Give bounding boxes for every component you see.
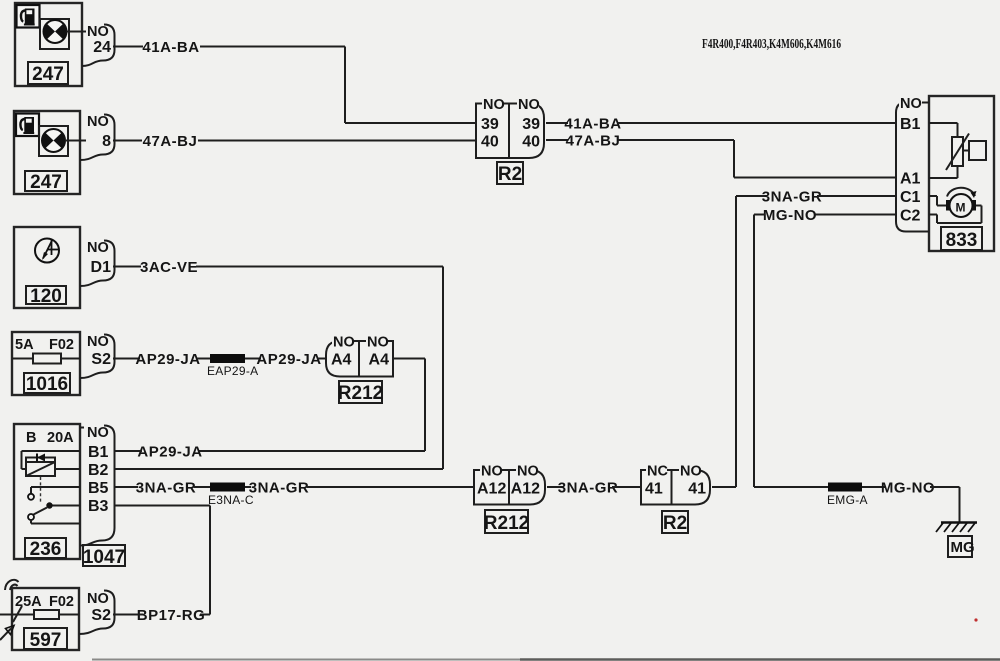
connector shell of 833 pins NO B1 A1 C1 C2 bbox=[896, 96, 929, 232]
svg-text:25A: 25A bbox=[15, 594, 42, 610]
svg-text:3AC-VE: 3AC-VE bbox=[140, 259, 198, 276]
relay contact pivot and blade bbox=[28, 502, 80, 523]
svg-text:247: 247 bbox=[30, 172, 62, 193]
indicator lamp symbol 247 second bbox=[39, 126, 86, 156]
fuel pump icon 247 top bbox=[17, 5, 40, 28]
svg-text:B: B bbox=[26, 430, 36, 446]
svg-text:F4R400,F4R403,K4M606,K4M616: F4R400,F4R403,K4M606,K4M616 bbox=[702, 37, 841, 52]
svg-text:NO: NO bbox=[517, 464, 539, 480]
svg-text:F02: F02 bbox=[49, 337, 74, 353]
svg-text:E3NA-C: E3NA-C bbox=[208, 493, 254, 507]
svg-text:A1: A1 bbox=[900, 171, 921, 188]
svg-text:NO: NO bbox=[481, 464, 503, 480]
svg-text:20A: 20A bbox=[47, 430, 74, 446]
wire MG-NO from 833 pin C2 to splice EMG-A bbox=[754, 207, 897, 487]
svg-text:NO: NO bbox=[900, 96, 922, 112]
connector shell pin NO / pin 24 of 247 top bbox=[82, 24, 115, 66]
wire 3NA-GR from R212 pin A12 to R2 pin 41 bbox=[547, 480, 641, 497]
connector R2 (top) pins 39 40 bbox=[476, 96, 544, 158]
svg-text:B2: B2 bbox=[88, 462, 109, 479]
label box 247 (top) bbox=[28, 62, 68, 85]
wire MG-NO from splice EMG-A to ground MG bbox=[862, 480, 960, 523]
wire 41A-BA from 247 pin 24 to R2 pin 39 bbox=[113, 39, 475, 123]
svg-text:C1: C1 bbox=[900, 189, 921, 206]
label box R212 (A12) bbox=[484, 510, 529, 534]
svg-text:EMG-A: EMG-A bbox=[827, 493, 868, 507]
wire 3NA-GR from 1047 pin B5 to splice E3NA-C bbox=[114, 480, 210, 497]
svg-text:R2: R2 bbox=[663, 513, 687, 534]
svg-text:597: 597 bbox=[30, 630, 62, 651]
svg-text:D1: D1 bbox=[91, 259, 112, 276]
svg-text:A4: A4 bbox=[369, 352, 390, 369]
svg-text:47A-BJ: 47A-BJ bbox=[143, 133, 198, 150]
svg-text:1047: 1047 bbox=[83, 547, 125, 568]
wire AP29-JA from splice EAP29-A to R212 pin A4 bbox=[245, 351, 327, 368]
splice EAP29-A bbox=[207, 354, 258, 378]
engine type note F4R400,F4R403,K4M606,K4M616 bbox=[702, 37, 841, 52]
connector shell pin NO / pin D1 of 120 bbox=[80, 240, 115, 286]
svg-text:247: 247 bbox=[32, 64, 64, 85]
svg-text:AP29-JA: AP29-JA bbox=[137, 444, 202, 461]
connector shell pin NO / pin S2 of 597 bbox=[79, 591, 115, 635]
svg-text:B3: B3 bbox=[88, 498, 109, 515]
svg-text:3NA-GR: 3NA-GR bbox=[136, 480, 197, 497]
svg-text:NO: NO bbox=[518, 97, 540, 113]
svg-text:NO: NO bbox=[87, 425, 109, 441]
svg-text:B1: B1 bbox=[88, 444, 109, 461]
svg-text:47A-BJ: 47A-BJ bbox=[566, 133, 621, 150]
svg-text:NO: NO bbox=[483, 97, 505, 113]
label box 120 bbox=[26, 286, 66, 307]
svg-text:EAP29-A: EAP29-A bbox=[207, 364, 258, 378]
svg-text:NO: NO bbox=[87, 24, 109, 40]
component 247 fuel pump relay feed (second) bbox=[14, 111, 80, 194]
svg-text:39: 39 bbox=[522, 116, 540, 133]
label box 1047 bbox=[83, 545, 125, 568]
svg-text:39: 39 bbox=[481, 116, 499, 133]
svg-text:NO: NO bbox=[87, 591, 109, 607]
svg-text:BP17-RG: BP17-RG bbox=[137, 607, 206, 624]
wire 3NA-GR from R2 pin 41 to 833 pin C1 bbox=[712, 189, 897, 488]
svg-text:5A: 5A bbox=[15, 337, 34, 353]
svg-text:AP29-JA: AP29-JA bbox=[135, 351, 200, 368]
svg-text:40: 40 bbox=[481, 134, 499, 151]
wire 41A-BA from R2 pin 39 to 833 pin B1 bbox=[546, 116, 897, 133]
svg-text:C2: C2 bbox=[900, 208, 921, 225]
svg-text:M: M bbox=[956, 201, 966, 215]
wire BP17-RG from 1047 pin B3 to 597 pin S2 bbox=[113, 506, 210, 625]
relay contact B5 terminal bbox=[28, 487, 80, 500]
indicator lamp symbol 247 top bbox=[40, 19, 86, 49]
component 597 fuse 25A F02 bbox=[12, 588, 79, 650]
svg-text:R2: R2 bbox=[498, 164, 522, 185]
svg-text:F02: F02 bbox=[49, 594, 74, 610]
label box 236 bbox=[25, 538, 66, 560]
freewheel diode of relay 236 bbox=[26, 454, 55, 463]
svg-text:40: 40 bbox=[522, 134, 540, 151]
svg-text:A4: A4 bbox=[331, 352, 352, 369]
label box 597 bbox=[24, 628, 67, 651]
svg-text:24: 24 bbox=[93, 39, 111, 56]
svg-text:B1: B1 bbox=[900, 116, 921, 133]
connector shell pin NO / pin S2 of 1016 bbox=[80, 334, 115, 378]
wire 47A-BJ from R2 pin 40 to 833 pin A1 bbox=[546, 133, 897, 178]
svg-text:41A-BA: 41A-BA bbox=[564, 116, 621, 133]
svg-text:S2: S2 bbox=[91, 351, 111, 368]
svg-text:MG-NO: MG-NO bbox=[763, 207, 817, 224]
component 1016 fuse 5A F02 bbox=[12, 332, 80, 395]
svg-text:41: 41 bbox=[688, 481, 706, 498]
component 247 fuel pump warning lamp (top) bbox=[15, 3, 82, 86]
fuse symbol F02 (597) bbox=[0, 610, 79, 619]
connector R212 pins A4 A4 bbox=[326, 334, 393, 377]
gauge symbol 120 bbox=[35, 239, 59, 263]
svg-text:NO: NO bbox=[367, 335, 389, 351]
wire 3AC-VE from 120 pin D1 to 1047 pin B2 bbox=[113, 259, 443, 469]
svg-text:A12: A12 bbox=[511, 481, 540, 498]
svg-text:S2: S2 bbox=[91, 607, 111, 624]
svg-text:NO: NO bbox=[680, 464, 702, 480]
svg-text:3NA-GR: 3NA-GR bbox=[249, 480, 310, 497]
svg-text:MG-NO: MG-NO bbox=[881, 480, 935, 497]
splice EMG-A bbox=[827, 483, 868, 508]
label box R212 (A4) bbox=[338, 381, 383, 404]
battery feed marks left of 597 bbox=[0, 580, 22, 640]
svg-text:NO: NO bbox=[87, 334, 109, 350]
svg-text:B5: B5 bbox=[88, 480, 109, 497]
connector R2 (bottom) pins 41 41 NC NO bbox=[641, 463, 710, 505]
wire 3NA-GR from splice E3NA-C to R212 pin A12 bbox=[245, 480, 475, 497]
svg-text:NC: NC bbox=[647, 464, 668, 480]
label box 1016 bbox=[24, 373, 70, 395]
connector R212 pins A12 A12 bbox=[474, 463, 545, 505]
wire AP29-JA from 1016 pin S2 to splice EAP29-A bbox=[113, 351, 210, 368]
fuel pump icon 247 second bbox=[16, 114, 39, 137]
svg-text:41: 41 bbox=[645, 481, 663, 498]
connector shell pin NO / pin 8 of 247 second bbox=[80, 114, 115, 160]
label box R2 (bottom) bbox=[662, 511, 688, 534]
svg-text:120: 120 bbox=[30, 286, 62, 307]
ground MG bbox=[936, 523, 977, 558]
connector 1047 shell with pins NO B1 B2 B5 B3 bbox=[80, 425, 115, 546]
svg-text:NO: NO bbox=[87, 114, 109, 130]
svg-text:1016: 1016 bbox=[26, 374, 68, 395]
svg-text:236: 236 bbox=[30, 539, 62, 560]
svg-text:41A-BA: 41A-BA bbox=[142, 39, 199, 56]
fuse symbol F02 (1016) bbox=[12, 354, 80, 364]
svg-text:8: 8 bbox=[102, 133, 111, 150]
splice E3NA-C bbox=[208, 483, 254, 508]
svg-text:NO: NO bbox=[333, 335, 355, 351]
svg-text:AP29-JA: AP29-JA bbox=[256, 351, 321, 368]
svg-text:R212: R212 bbox=[484, 513, 529, 534]
svg-text:A12: A12 bbox=[477, 481, 506, 498]
scan artifact bottom line bbox=[92, 618, 1000, 659]
wire AP29-JA loop from R212 pin A4 to 1047 pin B1 bbox=[114, 359, 425, 461]
label box 247 (second) bbox=[25, 171, 67, 193]
component 833 idle speed regulation stepper bbox=[929, 96, 994, 251]
svg-text:R212: R212 bbox=[338, 383, 383, 404]
label box 833 bbox=[941, 227, 982, 251]
svg-text:3NA-GR: 3NA-GR bbox=[762, 189, 823, 206]
relay armature link (dotted) bbox=[40, 477, 42, 503]
svg-text:833: 833 bbox=[946, 230, 978, 251]
label box R2 (top) bbox=[497, 162, 523, 185]
svg-text:NO: NO bbox=[87, 240, 109, 256]
relay coil K of 236 bbox=[22, 451, 81, 476]
component 120 instrument panel bbox=[14, 227, 80, 308]
svg-text:MG: MG bbox=[951, 539, 975, 556]
svg-text:3NA-GR: 3NA-GR bbox=[558, 480, 619, 497]
relay 236 fuel pump relay bbox=[14, 424, 80, 559]
wire 47A-BJ from 247 pin 8 to R2 pin 40 bbox=[113, 133, 475, 150]
potentiometer inside 833 bbox=[929, 123, 986, 178]
motor M inside 833 bbox=[929, 188, 982, 223]
